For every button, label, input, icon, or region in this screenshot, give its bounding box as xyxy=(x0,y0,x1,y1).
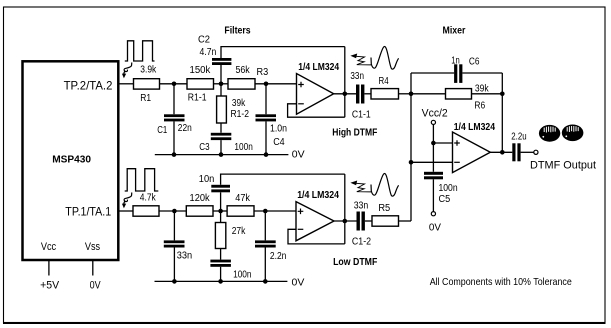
svg-text:0V: 0V xyxy=(90,279,102,291)
wire R1 to R1-1 xyxy=(160,83,188,85)
svg-text:R3: R3 xyxy=(257,67,269,78)
capacitor C1 22n xyxy=(157,84,192,155)
svg-text:Mixer: Mixer xyxy=(443,25,466,36)
svg-text:4.7n: 4.7n xyxy=(200,47,217,58)
wire R5 to summing vertical xyxy=(399,220,412,222)
op-amp U2C mixer xyxy=(453,122,496,173)
wire R1-1 to R3 xyxy=(214,83,229,85)
svg-text:1/4 LM324: 1/4 LM324 xyxy=(297,190,339,201)
DTMF waveform blob 1 xyxy=(539,125,560,142)
svg-text:TP.1/TA.1: TP.1/TA.1 xyxy=(65,206,111,219)
svg-text:R1-1: R1-1 xyxy=(188,93,207,104)
wire C6 top rail xyxy=(411,72,502,74)
wire TP.2 pin to R1 xyxy=(118,83,133,85)
sine wave low output xyxy=(371,174,399,197)
node high output xyxy=(343,92,348,97)
capacitor C4 1.0n xyxy=(256,84,288,155)
svg-text:MSP430: MSP430 xyxy=(52,154,91,165)
capacitor 100n low xyxy=(210,260,251,282)
node R6 right xyxy=(500,92,505,97)
node C1 top xyxy=(172,82,177,87)
svg-text:1n: 1n xyxy=(451,56,460,67)
svg-text:33n: 33n xyxy=(177,251,192,262)
DTMF waveform blob 2 xyxy=(562,125,584,142)
wire mixer output xyxy=(490,151,512,153)
capacitor C5 100n xyxy=(424,143,458,212)
svg-text:C6: C6 xyxy=(469,57,480,68)
ground rail bottom 0V xyxy=(155,276,305,288)
svg-text:Filters: Filters xyxy=(224,25,251,36)
resistor R1-2 39k vertical xyxy=(217,84,250,133)
capacitor C3 100n xyxy=(199,133,252,155)
node mixer plus xyxy=(431,141,436,146)
terminal Vcc/2 xyxy=(422,108,448,143)
svg-text:Low DTMF: Low DTMF xyxy=(333,257,377,268)
wire feedback loop high xyxy=(288,104,345,117)
resistor R3 56k xyxy=(228,65,269,89)
squiggle arrow high output xyxy=(350,54,371,65)
wire mixer output vertical xyxy=(501,73,503,152)
capacitor 33n low xyxy=(164,211,192,281)
squiggle arrow low output xyxy=(350,181,371,192)
svg-text:150k: 150k xyxy=(190,65,212,76)
node 33n top xyxy=(172,209,177,214)
svg-text:33n: 33n xyxy=(350,71,364,82)
svg-text:C1: C1 xyxy=(157,125,167,136)
capacitor 10n branch xyxy=(199,174,345,211)
wire R2 to 120k xyxy=(159,210,186,212)
svg-text:120k: 120k xyxy=(190,193,211,204)
capacitor C2 4.7n branch xyxy=(198,35,345,84)
wire Vcc stub xyxy=(48,260,50,276)
svg-text:100n: 100n xyxy=(233,270,251,281)
resistor R4 xyxy=(371,76,399,99)
svg-text:R6: R6 xyxy=(474,101,485,112)
svg-text:1.0n: 1.0n xyxy=(270,124,287,135)
wire minus input xyxy=(411,161,453,163)
svg-text:39k: 39k xyxy=(232,98,246,109)
svg-text:0V: 0V xyxy=(292,149,305,161)
node R1-2/C2 xyxy=(219,82,224,87)
squiggle arrow at TP.1 xyxy=(122,193,132,209)
ground rail top 0V xyxy=(155,149,305,161)
svg-text:R1: R1 xyxy=(140,93,151,104)
svg-text:All Components with 10% Tolera: All Components with 10% Tolerance xyxy=(430,277,572,288)
svg-text:27k: 27k xyxy=(232,226,247,237)
svg-text:C5: C5 xyxy=(439,194,451,205)
svg-text:Vss: Vss xyxy=(85,241,101,253)
terminal DTMF Output xyxy=(530,150,596,172)
wire feedback vertical high xyxy=(344,47,346,118)
IC U1 MSP430 xyxy=(23,61,119,260)
op-amp U2B low filter xyxy=(296,190,339,241)
wire R6 to output vertical xyxy=(472,93,503,95)
svg-text:1/4 LM324: 1/4 LM324 xyxy=(298,62,339,73)
svg-text:1/4 LM324: 1/4 LM324 xyxy=(454,122,496,133)
node C4 top xyxy=(264,82,269,87)
node 2.2n top xyxy=(263,209,268,214)
svg-text:C2: C2 xyxy=(198,35,210,46)
mixer summing vertical wire xyxy=(410,73,412,221)
svg-text:Vcc: Vcc xyxy=(41,241,57,253)
svg-text:C1-2: C1-2 xyxy=(352,236,372,247)
svg-text:2.2u: 2.2u xyxy=(511,132,526,143)
wire op-amp output high xyxy=(334,93,356,95)
capacitor 2.2n xyxy=(255,211,286,281)
resistor 27k vertical xyxy=(215,211,246,260)
resistor R1 3.9k xyxy=(134,65,160,104)
node summing minus xyxy=(409,160,414,165)
node mixer output xyxy=(500,150,505,155)
wire node to R6 xyxy=(411,93,446,95)
svg-text:Vcc/2: Vcc/2 xyxy=(422,108,448,120)
wire 2.2u to terminal xyxy=(521,151,534,153)
wire R4 to mixer node xyxy=(399,93,412,95)
capacitor C1-1 33n xyxy=(350,71,371,120)
low filter: PWM pulse symbol at TP.1 xyxy=(125,169,159,191)
svg-text:3.9k: 3.9k xyxy=(140,65,157,76)
wire R3 to op-amp xyxy=(255,83,297,85)
wire op-amp output low xyxy=(334,220,357,222)
wire Vss stub xyxy=(92,260,94,276)
svg-text:2.2n: 2.2n xyxy=(270,251,287,262)
resistor R5 xyxy=(372,203,399,226)
capacitor 2.2u xyxy=(511,132,526,162)
wire TP.1 pin to R2 xyxy=(118,210,133,212)
wire C1-1 to R4 xyxy=(364,93,371,95)
svg-text:C3: C3 xyxy=(199,142,210,153)
resistor 120k xyxy=(186,193,213,216)
svg-text:56k: 56k xyxy=(235,65,250,76)
wire feedback vertical low xyxy=(344,174,346,244)
svg-text:+5V: +5V xyxy=(40,279,60,291)
svg-text:47k: 47k xyxy=(235,193,251,204)
svg-text:R1-2: R1-2 xyxy=(231,109,250,120)
svg-text:0V: 0V xyxy=(429,222,441,234)
svg-text:33n: 33n xyxy=(354,201,369,212)
svg-text:DTMF Output: DTMF Output xyxy=(530,160,596,172)
svg-text:R5: R5 xyxy=(378,203,390,214)
wire C1-2 to R5 xyxy=(365,220,372,222)
svg-text:39k: 39k xyxy=(475,84,490,95)
resistor R2 4.7k xyxy=(133,192,159,216)
wire plus input xyxy=(433,142,452,144)
wire 47k to op-amp xyxy=(254,210,296,212)
svg-text:22n: 22n xyxy=(178,123,192,134)
node low output xyxy=(343,219,348,224)
resistor R1-1 150k xyxy=(187,65,214,104)
svg-text:4.7k: 4.7k xyxy=(140,192,157,203)
svg-text:TP.2/TA.2: TP.2/TA.2 xyxy=(64,80,113,93)
svg-text:0V: 0V xyxy=(292,276,305,288)
svg-text:R4: R4 xyxy=(379,76,389,87)
terminal 0V under C5 xyxy=(429,212,441,234)
capacitor C6 1n xyxy=(451,56,480,83)
resistor R6 39k xyxy=(446,84,490,112)
squiggle arrow at TP.2 xyxy=(122,63,132,79)
capacitor C1-2 33n xyxy=(352,201,372,248)
svg-text:100n: 100n xyxy=(439,183,458,194)
node 27k/10n xyxy=(218,209,223,214)
svg-text:C1-1: C1-1 xyxy=(352,109,371,120)
svg-text:100n: 100n xyxy=(234,142,252,153)
svg-text:High DTMF: High DTMF xyxy=(332,128,377,139)
wire 120k to 47k xyxy=(213,210,227,212)
resistor 47k xyxy=(227,193,254,216)
op-amp U2A high filter xyxy=(297,62,340,114)
sine wave high output xyxy=(371,47,399,70)
svg-text:10n: 10n xyxy=(199,174,215,185)
svg-text:C4: C4 xyxy=(273,137,285,148)
PWM pulse symbol at TP.2 xyxy=(125,41,155,61)
wire feedback loop low xyxy=(288,229,345,244)
node R4/R6/C6 xyxy=(409,92,414,97)
